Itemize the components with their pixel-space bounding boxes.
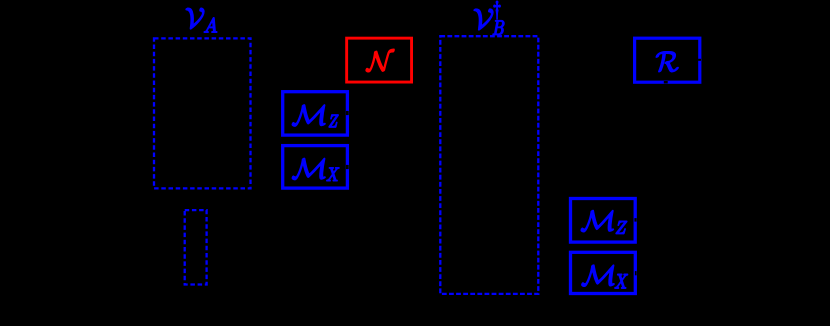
wire notch M_X top [346, 165, 349, 169]
label V_B dagger : calligraphic V [474, 9, 493, 30]
label M_X bottom : calligraphic M [582, 265, 615, 286]
label M_Z top : calligraphic M [292, 105, 325, 126]
measurement box M_X top [283, 146, 348, 189]
recovery box R [635, 38, 700, 82]
measurement box M_Z top [283, 92, 348, 135]
classical wire notch R bottom [664, 81, 668, 83]
label M_X top : calligraphic M [292, 158, 325, 179]
label M_X bottom : subscript X [615, 274, 628, 288]
dashed box V_B dagger (decoder) [440, 36, 538, 294]
label V_A : subscript A [204, 18, 217, 33]
label V_B dagger : dagger [494, 1, 501, 19]
dashed box V_A (encoder) [154, 38, 251, 188]
label M_X top : subscript X [327, 168, 339, 181]
dashed box ancilla [185, 210, 207, 284]
wire notch M_Z bottom [634, 218, 636, 222]
label M_Z top : subscript Z [329, 115, 338, 127]
wire notch R right [698, 59, 701, 61]
wire notch M_Z top [346, 111, 349, 115]
label V_B dagger : subscript B [493, 21, 504, 35]
label V_A : calligraphic V [186, 8, 204, 29]
wire notch M_X bottom [635, 271, 637, 275]
label M_Z bottom : calligraphic M [581, 210, 613, 231]
noise box N (red) [347, 38, 412, 82]
measurement box M_Z bottom [571, 199, 636, 243]
label N : calligraphic N [366, 49, 394, 72]
label R : calligraphic R [656, 52, 678, 72]
measurement box M_X bottom [571, 252, 636, 293]
label M_Z bottom : subscript Z [616, 221, 627, 233]
